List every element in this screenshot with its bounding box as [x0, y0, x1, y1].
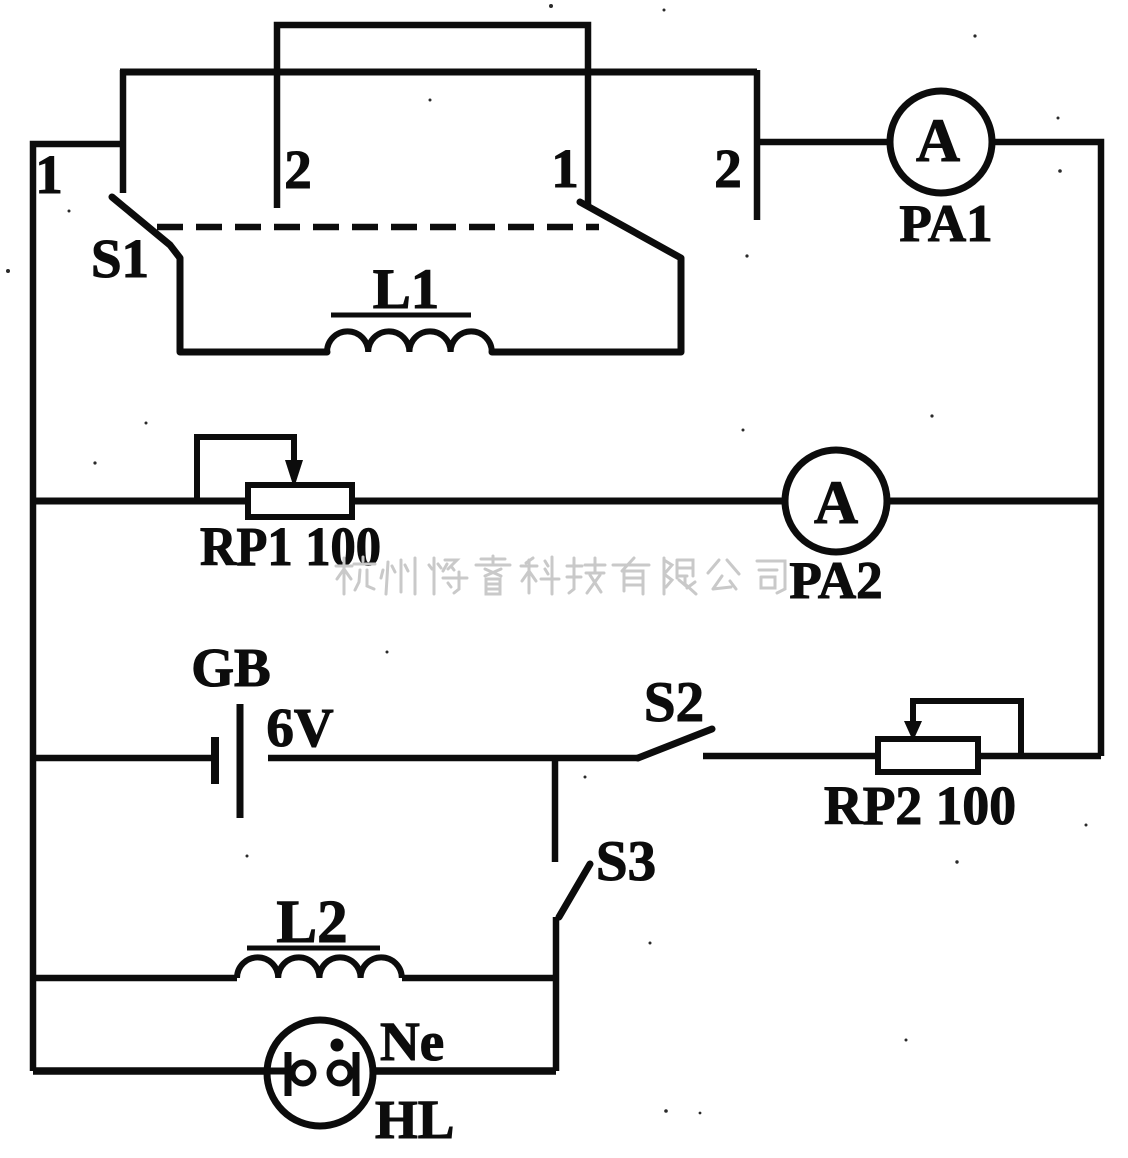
svg-text:RP2 100: RP2 100 [824, 775, 1016, 836]
svg-text:1: 1 [551, 138, 579, 199]
svg-text:A: A [916, 108, 960, 175]
svg-text:PA2: PA2 [789, 552, 882, 610]
svg-text:HL: HL [375, 1089, 454, 1150]
svg-text:RP1 100: RP1 100 [200, 516, 381, 577]
svg-text:L2: L2 [276, 889, 347, 956]
svg-text:L1: L1 [373, 258, 440, 321]
svg-text:1: 1 [35, 144, 63, 205]
svg-text:S2: S2 [644, 671, 704, 734]
svg-text:2: 2 [714, 138, 742, 199]
svg-text:S3: S3 [596, 830, 656, 893]
svg-text:GB: GB [191, 637, 270, 698]
svg-text:6V: 6V [266, 697, 334, 758]
svg-text:2: 2 [284, 139, 312, 200]
svg-text:S1: S1 [91, 228, 149, 289]
svg-text:A: A [814, 470, 858, 537]
svg-text:Ne: Ne [380, 1011, 444, 1072]
svg-text:PA1: PA1 [899, 195, 992, 253]
